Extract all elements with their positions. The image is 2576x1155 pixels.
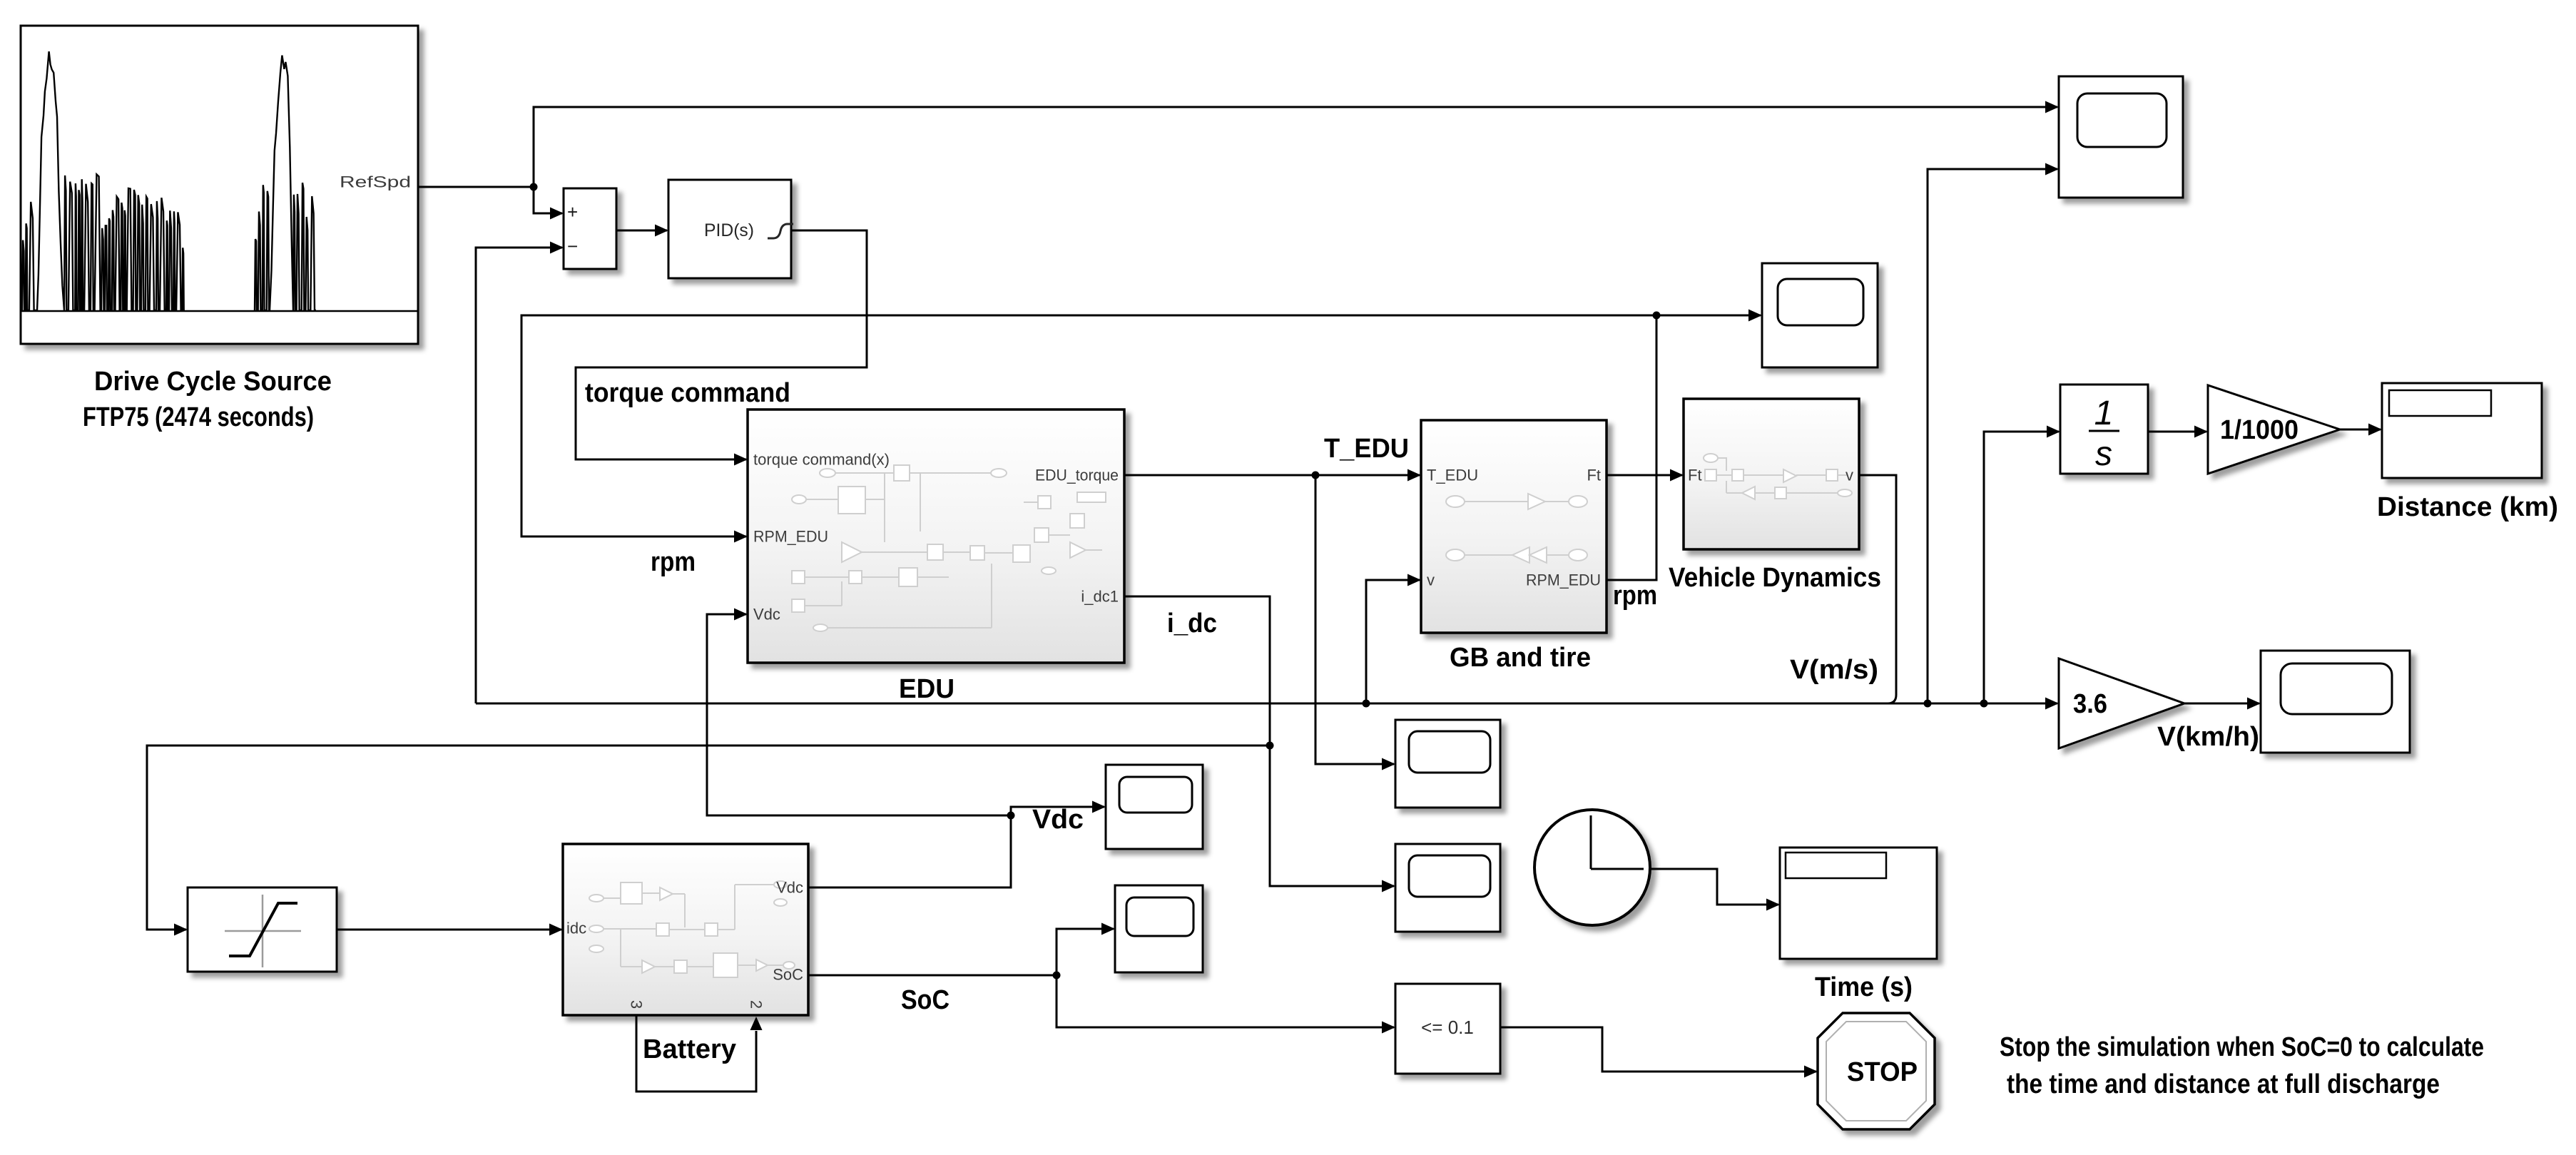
annotation: stop condition note — [2000, 1032, 2484, 1099]
wire RefSpd down into sum + input — [534, 187, 564, 220]
svg-text:EDU: EDU — [899, 674, 954, 704]
junction T_EDU — [1312, 472, 1320, 479]
svg-text:<= 0.1: <= 0.1 — [1421, 1017, 1474, 1038]
scope (RefSpd vs V) top right — [2059, 76, 2183, 198]
source block: Drive Cycle Source — [21, 26, 418, 344]
wire v output of Vehicle Dynamics down to V(m/s) line — [1859, 475, 1896, 703]
svg-text:Vdc: Vdc — [753, 606, 780, 624]
gain 3.6 — [2059, 658, 2184, 748]
display Time (s) — [1780, 848, 1937, 959]
junction v to top scope — [1924, 700, 1932, 708]
svg-text:SoC: SoC — [901, 985, 950, 1015]
svg-text:Ft: Ft — [1587, 467, 1601, 484]
wire T_EDU: EDU_torque output to GB input — [1124, 469, 1421, 482]
svg-text:RefSpd: RefSpd — [340, 173, 411, 191]
junction RefSpd — [530, 183, 538, 191]
svg-text:Vdc: Vdc — [1032, 805, 1084, 835]
svg-text:T_EDU: T_EDU — [1324, 434, 1409, 464]
svg-text:Battery: Battery — [643, 1034, 736, 1064]
svg-text:V(km/h): V(km/h) — [2157, 722, 2259, 752]
EDU ghost diagram — [792, 465, 1106, 631]
svg-text:STOP: STOP — [1847, 1057, 1918, 1087]
STOP simulation block — [1818, 1013, 1935, 1129]
junction i_dc — [1266, 742, 1274, 750]
svg-text:RPM_EDU: RPM_EDU — [753, 528, 828, 546]
svg-text:the time and distance at full: the time and distance at full discharge — [2007, 1069, 2440, 1099]
svg-text:rpm: rpm — [651, 547, 696, 577]
wire PID output / torque command to EDU input 1 — [576, 230, 867, 466]
subsystem block Battery — [563, 844, 808, 1015]
svg-text:Vehicle Dynamics: Vehicle Dynamics — [1669, 563, 1881, 593]
scope SoC — [1115, 885, 1203, 972]
wire compare output to STOP — [1500, 1027, 1818, 1078]
junction Vdc — [1007, 812, 1015, 820]
wire Ft: GB output to Vehicle Dynamics input — [1607, 469, 1684, 482]
svg-text:RPM_EDU: RPM_EDU — [1526, 571, 1601, 589]
wire Vdc to EDU Vdc input — [707, 609, 1011, 816]
wire clock to Time display — [1650, 869, 1780, 911]
saturation block — [188, 887, 337, 972]
svg-text:torque command(x): torque command(x) — [753, 451, 890, 469]
svg-text:Stop the simulation when SoC=0: Stop the simulation when SoC=0 to calcul… — [2000, 1032, 2484, 1062]
svg-text:torque command: torque command — [585, 378, 790, 408]
svg-text:+: + — [567, 201, 578, 223]
svg-text:EDU_torque: EDU_torque — [1035, 467, 1119, 484]
svg-text:Ft: Ft — [1688, 467, 1702, 484]
drive cycle speed trace — [22, 51, 316, 310]
compare block <= 0.1 — [1395, 984, 1500, 1074]
svg-text:V(m/s): V(m/s) — [1790, 655, 1878, 685]
svg-text:i_dc: i_dc — [1167, 609, 1217, 638]
wire v branch up to top scope input 2 — [1928, 163, 2059, 704]
subsystem block Vehicle Dynamics — [1684, 399, 1859, 549]
junction rpm to scope — [1653, 312, 1661, 320]
svg-text:T_EDU: T_EDU — [1427, 467, 1478, 484]
svg-text:v: v — [1846, 467, 1853, 484]
wire SoC down to compare block — [1057, 975, 1395, 1034]
svg-text:v: v — [1427, 571, 1435, 589]
svg-text:PID(s): PID(s) — [704, 220, 754, 240]
wire 3.6 output to V(km/h) scope — [2184, 698, 2261, 710]
scope V(km/h) — [2261, 651, 2410, 753]
svg-text:1: 1 — [2094, 395, 2114, 432]
wire SoC up to SoC scope — [1057, 923, 1115, 976]
svg-text:Distance (km): Distance (km) — [2377, 492, 2558, 522]
wire v branch up to integrator input — [1984, 426, 2060, 704]
svg-text:1/1000: 1/1000 — [2220, 415, 2298, 445]
svg-text:SoC: SoC — [773, 966, 803, 984]
svg-text:−: − — [567, 235, 578, 257]
svg-text:GB and tire: GB and tire — [1450, 643, 1591, 673]
PID controller block — [668, 180, 793, 278]
scope Vdc — [1106, 765, 1203, 849]
svg-text:idc: idc — [566, 920, 586, 937]
svg-text:s: s — [2095, 435, 2112, 473]
wire T_EDU branch down to scope — [1315, 475, 1395, 770]
svg-text:3: 3 — [628, 1000, 646, 1009]
wire RefSpd up to top scope input 1 — [534, 101, 2059, 188]
label: Drive Cycle Source / FTP75 (2474 seconds) — [83, 367, 332, 432]
wire speed feedback into sum - input — [476, 242, 564, 704]
subsystem block EDU — [748, 409, 1124, 663]
svg-text:Vdc: Vdc — [776, 879, 803, 897]
clock block — [1534, 810, 1650, 925]
display Distance (km) — [2382, 383, 2542, 478]
scope T_EDU — [1395, 720, 1500, 808]
scope i_dc — [1395, 844, 1500, 932]
junction v to GB — [1363, 700, 1370, 708]
Vehicle Dynamics ghost diagram — [1704, 454, 1852, 499]
junction SoC — [1053, 972, 1061, 980]
svg-text:Drive Cycle Source: Drive Cycle Source — [94, 367, 332, 397]
subsystem block GB and tire — [1421, 420, 1607, 633]
wire i_dc to saturation input — [147, 746, 1270, 936]
svg-text:rpm: rpm — [1613, 581, 1657, 611]
gain 1/1000 — [2208, 385, 2340, 474]
wire Battery SoC output — [808, 975, 1057, 977]
wire v branch up to GB v input — [1366, 574, 1421, 704]
wire rpm branch to rpm scope — [1656, 310, 1762, 322]
svg-text:3.6: 3.6 — [2073, 689, 2107, 719]
wire V(m/s) main line to 3.6 gain — [476, 698, 2059, 710]
wire integrator output to 1/1000 gain — [2148, 426, 2208, 438]
integrator 1/s — [2060, 385, 2148, 474]
wire Battery Vdc output up to junction — [808, 815, 1011, 887]
scope rpm — [1762, 263, 1878, 367]
wire sum output to PID input — [616, 225, 668, 237]
wire Battery port3 loop to port2 — [636, 1015, 763, 1092]
GB and tire ghost diagram — [1446, 494, 1587, 563]
junction v to integrator — [1980, 700, 1988, 708]
wire i_dc1 output down — [1124, 596, 1270, 746]
wire saturation output to Battery idc — [337, 924, 563, 936]
wire rpm feedback GB RPM_EDU to EDU RPM_EDU — [521, 315, 1656, 580]
svg-text:Time (s): Time (s) — [1815, 972, 1913, 1002]
wire i_dc branch down to i_dc scope — [1270, 746, 1395, 892]
svg-text:i_dc1: i_dc1 — [1081, 588, 1119, 606]
wire gain output to Distance display — [2340, 424, 2382, 436]
wire RefSpd output to junction — [418, 186, 534, 188]
wire Vdc jog to Vdc scope — [1011, 801, 1106, 816]
svg-text:2: 2 — [748, 1000, 765, 1009]
Battery ghost diagram — [589, 881, 795, 977]
svg-text:FTP75 (2474 seconds): FTP75 (2474 seconds) — [83, 402, 314, 432]
sum block — [564, 188, 616, 269]
